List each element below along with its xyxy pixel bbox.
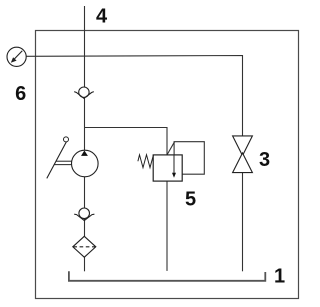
wire: gauge line across to valve 3 [26,56,243,136]
shut-off valve 3 [233,136,253,173]
filter [73,236,96,257]
pressure gauge 6 [7,47,26,66]
pilot loop [174,142,204,175]
svg-text:6: 6 [15,83,26,105]
wire: branch to relief valve 5 [85,128,168,156]
valve body [153,155,182,181]
svg-text:4: 4 [96,5,108,27]
wire: pump outlet down through check valve and filter to tank [84,177,86,271]
enclosure frame [36,31,299,299]
svg-text:3: 3 [259,149,270,171]
check valve C2 (lower) [74,208,94,221]
hand pump [47,137,98,179]
flow arrow [173,155,175,173]
relief valve 5 [138,142,204,181]
spring [138,155,153,168]
wire: port 4 riser (pump line, top to pump inlet) [84,6,86,150]
wire: valve 3 outlet to tank [242,173,244,272]
wire: relief valve 5 outlet to tank [166,181,168,271]
svg-text:1: 1 [274,265,285,287]
svg-text:5: 5 [185,189,196,211]
check valve C1 (upper) [74,87,94,98]
tank / reservoir 1 [69,271,265,281]
